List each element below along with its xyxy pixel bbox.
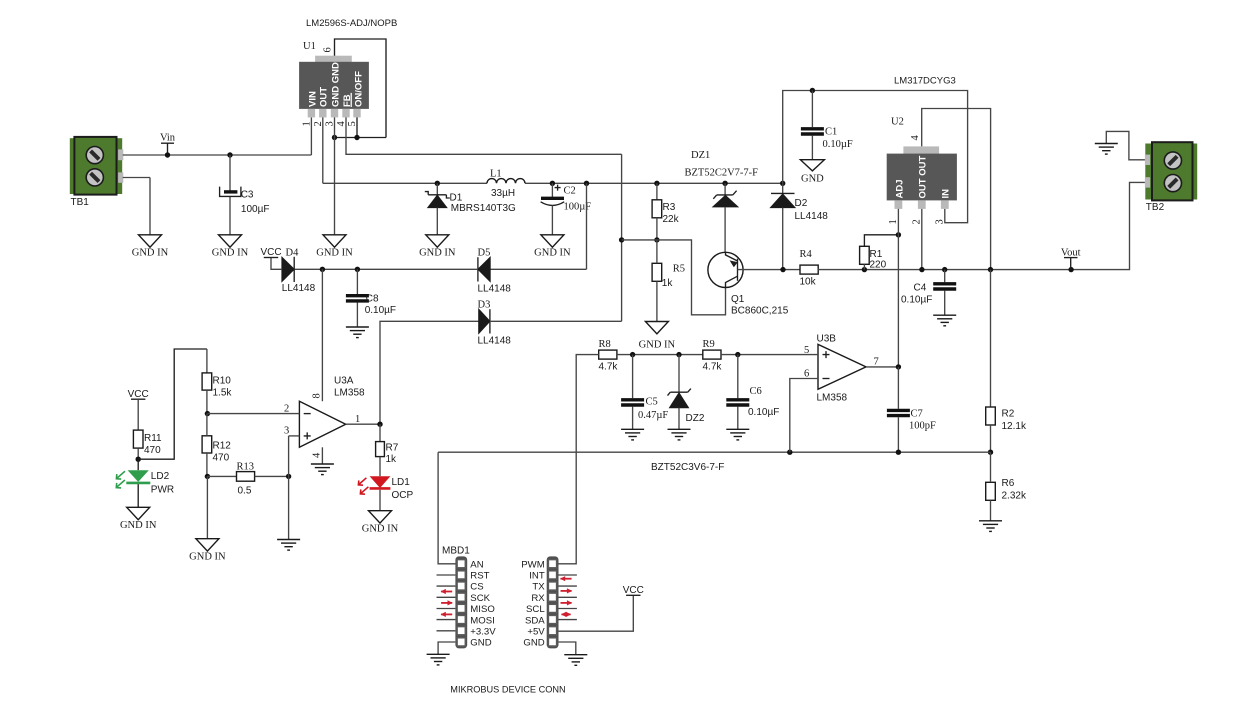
- svg-text:1k: 1k: [662, 278, 674, 289]
- svg-text:U3B: U3B: [817, 334, 837, 345]
- svg-text:MBRS140T3G: MBRS140T3G: [451, 203, 516, 214]
- svg-text:TB2: TB2: [1146, 202, 1165, 213]
- wire U1 pin4 FB: [346, 117, 622, 154]
- wire C3 branch: [229, 155, 231, 191]
- wire FB vertical: [621, 154, 623, 321]
- wire R12 bottom: [206, 453, 208, 476]
- signal arrow SCL: [561, 600, 573, 605]
- wire R5 bottom: [656, 281, 658, 321]
- resistor R9: [703, 339, 723, 373]
- svg-text:RST: RST: [470, 571, 489, 582]
- wire D2 top: [782, 183, 784, 193]
- wire R7 bottom: [379, 457, 381, 477]
- svg-text:PWR: PWR: [151, 485, 174, 496]
- ground GND IN (R12): [189, 539, 226, 563]
- junction: [550, 181, 555, 186]
- wire U3A in2: [207, 413, 299, 415]
- svg-text:22k: 22k: [663, 214, 680, 225]
- wire DZ1 to Q1: [724, 207, 726, 253]
- svg-text:BZT52C2V7-7-F: BZT52C2V7-7-F: [685, 168, 759, 179]
- resistor R11: [133, 430, 162, 456]
- svg-text:MISO: MISO: [470, 604, 495, 615]
- svg-text:PWM: PWM: [521, 559, 544, 570]
- svg-text:4.7k: 4.7k: [599, 362, 619, 373]
- svg-text:0.10µF: 0.10µF: [901, 295, 932, 306]
- svg-text:GND IN: GND IN: [132, 248, 169, 259]
- title MIKROBUS DEVICE CONN: [450, 685, 565, 695]
- wire U1 pin2 drop: [322, 117, 324, 183]
- svg-text:SCL: SCL: [526, 604, 545, 615]
- svg-text:100µF: 100µF: [241, 204, 270, 215]
- wire D5 rail: [490, 268, 586, 270]
- svg-text:0.5: 0.5: [238, 486, 252, 497]
- svg-text:R8: R8: [599, 339, 611, 350]
- wire R12 top: [206, 414, 208, 436]
- wire U3A out: [346, 423, 380, 425]
- svg-text:R10: R10: [213, 376, 232, 387]
- wire LD2 to gnd: [137, 484, 139, 507]
- wire R1 top loop: [864, 235, 898, 247]
- svg-text:GND IN: GND IN: [189, 552, 226, 563]
- junction: [332, 135, 337, 140]
- svg-text:L1: L1: [490, 169, 502, 180]
- wire stub: [437, 619, 456, 621]
- svg-text:C3: C3: [241, 189, 254, 200]
- svg-text:D5: D5: [478, 247, 491, 258]
- svg-text:GND: GND: [523, 638, 544, 649]
- svg-text:INT: INT: [529, 571, 545, 582]
- transistor Q1: [708, 252, 789, 316]
- wire U3A pin8: [321, 269, 323, 401]
- ground GND IN (C3): [212, 235, 249, 259]
- wire stub: [559, 596, 577, 598]
- junction: [896, 364, 901, 369]
- svg-text:DZ1: DZ1: [691, 150, 710, 161]
- capacitor C1: [801, 127, 853, 151]
- svg-text:GND IN: GND IN: [212, 248, 249, 259]
- svg-text:470: 470: [213, 453, 230, 464]
- wire R10 bottom: [206, 390, 208, 414]
- svg-text:R7: R7: [386, 443, 399, 454]
- junction: [862, 267, 867, 272]
- svg-text:GND IN: GND IN: [120, 520, 157, 531]
- junction: [787, 450, 792, 455]
- svg-text:1.5k: 1.5k: [213, 388, 233, 399]
- svg-text:8: 8: [312, 393, 323, 398]
- svg-text:BC860C,215: BC860C,215: [731, 306, 789, 317]
- wire OUT to D5 drop: [586, 183, 588, 269]
- wire pin3 gnd drop: [288, 436, 290, 540]
- wire DZ1 top: [724, 183, 726, 195]
- ground GND IN (LD2): [120, 507, 157, 531]
- wire R2 bottom: [990, 425, 992, 452]
- resistor R3: [652, 200, 680, 225]
- junction: [722, 181, 727, 186]
- junction: [286, 474, 291, 479]
- junction: [584, 181, 589, 186]
- wire U2 pin4 loop: [922, 109, 991, 270]
- wire DZ2 top: [678, 355, 680, 393]
- wire stub: [437, 585, 456, 587]
- svg-text:VCC: VCC: [260, 247, 281, 258]
- svg-text:C7: C7: [911, 409, 923, 420]
- svg-text:BZT52C3V6-7-F: BZT52C3V6-7-F: [651, 462, 724, 473]
- wire Q1 base: [738, 269, 801, 271]
- wire +5V to VCC: [559, 595, 634, 631]
- wire Vin rail: [123, 154, 312, 156]
- wire OUT rail right: [525, 182, 783, 184]
- svg-text:GND: GND: [470, 638, 491, 649]
- junction: [988, 267, 993, 272]
- wire D3 to FB: [490, 320, 622, 322]
- op-amp U3B: [804, 334, 879, 404]
- wire stub: [437, 574, 456, 576]
- wire U1 pin3 gnd: [334, 117, 336, 234]
- resistor R13: [237, 462, 255, 497]
- svg-text:D4: D4: [286, 247, 300, 258]
- wire VCC to R11: [137, 399, 139, 430]
- ground earth (MBD1 right): [564, 655, 587, 666]
- svg-text:GND IN: GND IN: [639, 340, 676, 351]
- svg-text:2: 2: [284, 404, 289, 415]
- junction: [165, 152, 170, 157]
- svg-text:LL4148: LL4148: [478, 284, 512, 295]
- wire OUT up to LM317: [783, 91, 968, 223]
- wire stub: [559, 574, 577, 576]
- diode D5: [478, 247, 512, 294]
- signal arrow MISO: [441, 600, 453, 605]
- capacitor C6: [726, 386, 779, 418]
- svg-text:7: 7: [874, 357, 879, 368]
- signal arrow MOSI: [441, 612, 453, 617]
- junction: [354, 135, 359, 140]
- wire C5 bottom: [632, 407, 634, 430]
- junction: [619, 237, 624, 242]
- wire U2 pin2 drop: [921, 209, 923, 270]
- ground earth (TB2): [1095, 144, 1118, 155]
- svg-text:3: 3: [284, 426, 289, 437]
- wire R8 left PWM: [558, 355, 599, 564]
- svg-text:R4: R4: [800, 249, 813, 260]
- wire R7 top: [379, 424, 381, 441]
- power VCC (+5V): [623, 585, 644, 596]
- resistor R6: [986, 478, 1027, 502]
- diode D2: [771, 193, 829, 222]
- wire U3B out: [866, 366, 898, 368]
- svg-text:1: 1: [888, 219, 899, 224]
- svg-text:SCK: SCK: [470, 593, 490, 604]
- svg-text:10k: 10k: [800, 277, 817, 288]
- capacitor C4: [901, 283, 956, 306]
- signal arrow RX: [561, 588, 573, 593]
- wire AN drop: [438, 452, 456, 564]
- wire feedback rail: [438, 451, 990, 453]
- svg-text:MBD1: MBD1: [442, 546, 470, 557]
- svg-text:LM358: LM358: [817, 393, 848, 404]
- svg-text:VCC: VCC: [128, 389, 149, 400]
- svg-text:100pF: 100pF: [909, 421, 936, 432]
- wire R13 left: [207, 475, 236, 477]
- junction: [435, 181, 440, 186]
- wire C4 to gnd: [944, 291, 946, 316]
- signal arrow SDA: [561, 612, 571, 617]
- wire stub: [437, 608, 456, 610]
- svg-text:VIN: VIN: [307, 91, 318, 107]
- svg-text:R3: R3: [663, 202, 676, 213]
- wire OUT rail left: [323, 182, 487, 184]
- junction: [377, 422, 382, 427]
- svg-text:ON/OFF: ON/OFF: [353, 71, 364, 107]
- signal arrow TX: [560, 576, 572, 581]
- junction: [810, 88, 815, 93]
- wire TB1 gnd drop: [149, 178, 151, 235]
- wire C6 top: [737, 355, 739, 399]
- wire C8 to gnd: [356, 303, 358, 328]
- resistor R5: [652, 263, 685, 289]
- wire U3B pin6 drop: [790, 379, 818, 453]
- svg-text:1: 1: [301, 121, 312, 126]
- wire C3 to gnd: [229, 196, 231, 234]
- wire C2 to gnd: [551, 205, 553, 234]
- svg-text:GND: GND: [801, 174, 824, 185]
- ground earth (C4): [933, 315, 956, 326]
- junction: [988, 450, 993, 455]
- svg-text:R2: R2: [1002, 409, 1015, 420]
- zener diode DZ2: [668, 389, 705, 424]
- svg-text:LL4148: LL4148: [282, 283, 316, 294]
- signal arrow SCK: [441, 589, 453, 594]
- net label Vout: [1061, 247, 1081, 269]
- wire TB1 pin2 out: [123, 177, 150, 179]
- svg-text:R13: R13: [237, 462, 255, 473]
- wire R3 bottom: [656, 218, 658, 240]
- junction: [654, 181, 659, 186]
- junction: [780, 267, 785, 272]
- ground GND IN (C2): [534, 235, 571, 259]
- svg-text:4: 4: [312, 452, 323, 458]
- svg-text:R5: R5: [673, 264, 685, 275]
- svg-text:2.32k: 2.32k: [1002, 491, 1027, 502]
- wire U1 pin6 loop: [335, 39, 387, 138]
- svg-text:MOSI: MOSI: [470, 615, 495, 626]
- resistor R1: [860, 246, 887, 270]
- svg-text:3: 3: [935, 219, 946, 224]
- terminal block TB1: [70, 137, 123, 208]
- connector MBD1 right column: [521, 556, 558, 648]
- svg-text:R1: R1: [870, 249, 883, 260]
- ground GND IN (U1): [316, 235, 353, 259]
- svg-text:R11: R11: [144, 433, 162, 444]
- junction: [919, 267, 924, 272]
- junction: [654, 237, 659, 242]
- svg-text:C4: C4: [914, 283, 927, 294]
- junction: [735, 352, 740, 357]
- svg-text:GND IN: GND IN: [534, 248, 571, 259]
- svg-text:R9: R9: [703, 339, 715, 350]
- svg-text:MIKROBUS DEVICE CONN: MIKROBUS DEVICE CONN: [450, 685, 565, 695]
- connector MBD1 left column: [442, 546, 496, 649]
- wire MBD1 gnd: [438, 642, 455, 654]
- svg-text:D1: D1: [450, 193, 463, 204]
- svg-text:U2: U2: [891, 117, 904, 128]
- svg-text:SDA: SDA: [525, 615, 545, 626]
- svg-text:0.10µF: 0.10µF: [748, 407, 779, 418]
- resistor R7: [376, 442, 399, 465]
- wire R8 right: [617, 354, 703, 356]
- resistor R4: [800, 249, 819, 288]
- junction: [205, 474, 210, 479]
- wire stub: [559, 619, 577, 621]
- inductor L1: [487, 169, 525, 200]
- wire LD2 top: [137, 459, 139, 470]
- svg-text:R12: R12: [213, 441, 232, 452]
- svg-text:LD1: LD1: [392, 477, 411, 488]
- svg-text:DZ2: DZ2: [686, 413, 705, 424]
- wire R11 bottom: [137, 448, 139, 459]
- ground earth (C8): [346, 327, 369, 338]
- svg-text:VCC: VCC: [623, 585, 644, 596]
- wire Vout rail: [818, 182, 1145, 269]
- capacitor C7: [887, 409, 936, 432]
- ground GND IN (LD1): [362, 511, 399, 535]
- wire R3 top: [656, 183, 658, 200]
- junction: [355, 267, 360, 272]
- wire LD1 to gnd: [379, 490, 381, 511]
- capacitor C2: [541, 185, 592, 213]
- diode D3: [478, 299, 512, 346]
- svg-text:OUT: OUT: [319, 87, 330, 107]
- svg-text:1k: 1k: [386, 454, 398, 465]
- wire ADJ vertical: [897, 209, 899, 367]
- diode D1: [425, 192, 516, 214]
- IC U2 LM317: [887, 76, 957, 225]
- ground GND IN (D1): [419, 235, 456, 259]
- wire base rail: [622, 240, 726, 315]
- svg-text:AN: AN: [470, 559, 483, 570]
- zener diode DZ1: [685, 150, 759, 207]
- wire C6 bottom: [737, 407, 739, 430]
- svg-text:0.10µF: 0.10µF: [365, 305, 396, 316]
- svg-text:6: 6: [323, 47, 334, 52]
- wire C4 top: [944, 270, 946, 283]
- svg-text:LM358: LM358: [334, 388, 365, 399]
- svg-text:TX: TX: [532, 582, 545, 593]
- ground earth (U3A): [311, 464, 334, 475]
- junction: [676, 352, 681, 357]
- wire R13 right: [255, 475, 289, 477]
- svg-text:2: 2: [912, 219, 923, 224]
- ground earth (U3A in3): [277, 540, 300, 551]
- wire D5 to D4: [295, 268, 478, 270]
- svg-text:C2: C2: [564, 186, 576, 197]
- svg-text:C5: C5: [646, 397, 658, 408]
- wire R2 top: [990, 270, 992, 407]
- wire D4 anode: [271, 258, 282, 270]
- svg-text:4: 4: [910, 135, 921, 141]
- svg-text:OUT OUT: OUT OUT: [918, 156, 929, 199]
- svg-text:Vout: Vout: [1061, 247, 1081, 258]
- wire C5 top: [632, 355, 634, 399]
- ground GND IN (TB1): [132, 235, 169, 259]
- svg-text:LM317DCYG3: LM317DCYG3: [894, 76, 956, 87]
- LED LD1: [358, 476, 413, 501]
- svg-text:+3.3V: +3.3V: [470, 626, 496, 637]
- junction: [320, 267, 325, 272]
- ground earth (C6): [726, 429, 749, 440]
- LED LD2: [116, 470, 174, 495]
- svg-text:R6: R6: [1002, 478, 1015, 489]
- wire FB jumper: [335, 137, 387, 139]
- svg-text:4.7k: 4.7k: [703, 362, 723, 373]
- svg-text:U1: U1: [303, 41, 316, 52]
- wire stub: [437, 630, 456, 632]
- junction: [205, 411, 210, 416]
- power VCC (D4): [260, 247, 281, 258]
- wire R12 to gnd: [206, 476, 208, 538]
- svg-text:12.1k: 12.1k: [1002, 421, 1027, 432]
- svg-text:LL4148: LL4148: [795, 211, 829, 222]
- ground earth (R6): [979, 521, 1002, 532]
- junction: [1068, 267, 1073, 272]
- ground earth (C5): [621, 429, 644, 440]
- wire R1 bottom: [863, 264, 865, 269]
- wire U1 pin1 drop: [310, 117, 312, 155]
- svg-text:TB1: TB1: [71, 197, 90, 208]
- capacitor C8: [346, 294, 396, 317]
- junction: [630, 352, 635, 357]
- svg-text:C1: C1: [825, 127, 837, 138]
- diode D4: [282, 247, 316, 294]
- wire R10 top: [206, 349, 208, 373]
- wire MBD1 right gnd: [559, 642, 576, 655]
- wire U3A in3: [289, 435, 300, 437]
- svg-text:C8: C8: [366, 294, 379, 305]
- svg-text:D2: D2: [795, 198, 808, 209]
- svg-text:CS: CS: [470, 582, 483, 593]
- wire R9 right: [721, 354, 818, 356]
- svg-text:33µH: 33µH: [491, 188, 515, 199]
- value label BZT52C3V6-7-F: [651, 462, 724, 473]
- svg-text:1: 1: [355, 414, 360, 425]
- wire DZ2 bottom: [678, 408, 680, 430]
- wire U3A pin4: [321, 447, 323, 464]
- svg-text:RX: RX: [531, 593, 545, 604]
- junction: [136, 457, 141, 462]
- svg-text:C6: C6: [750, 386, 762, 397]
- ground GND (C1): [800, 160, 824, 185]
- svg-text:LL4148: LL4148: [478, 336, 512, 347]
- wire D1 to gnd: [436, 208, 438, 235]
- wire stub: [559, 608, 577, 610]
- wire C2 top: [551, 183, 553, 198]
- wire C1 to gnd: [811, 136, 813, 160]
- wire stub: [437, 596, 456, 598]
- svg-text:470: 470: [144, 445, 161, 456]
- net label Vin: [160, 133, 176, 155]
- junction: [896, 232, 901, 237]
- svg-text:ADJ: ADJ: [894, 179, 905, 198]
- svg-text:D3: D3: [478, 299, 491, 310]
- junction: [227, 152, 232, 157]
- svg-text:OCP: OCP: [392, 490, 414, 501]
- wire D2 bottom: [782, 208, 784, 270]
- svg-text:Vin: Vin: [160, 133, 176, 144]
- svg-text:GND IN: GND IN: [316, 248, 353, 259]
- power VCC (R11): [128, 389, 149, 400]
- capacitor C3: [220, 187, 270, 215]
- ground earth (MBD1 left): [427, 654, 450, 665]
- wire U1 pin5 drop: [356, 117, 358, 137]
